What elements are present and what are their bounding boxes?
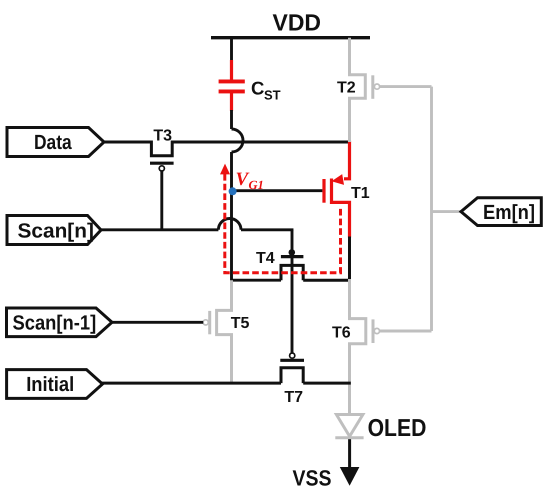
input label Initial bbox=[7, 370, 103, 399]
transistor T4 gate bar bbox=[281, 255, 304, 258]
svg-text:OLED: OLED bbox=[368, 415, 427, 442]
red dashed feedback path bbox=[225, 174, 341, 273]
transistor T2 gate bar (gray) bbox=[371, 75, 374, 99]
transistor T6 gate bar (gray) bbox=[372, 319, 375, 343]
svg-text:VSS: VSS bbox=[293, 466, 332, 491]
wire VDD rail to C_ST bbox=[230, 38, 233, 62]
wire VG1 to T1 gate bbox=[232, 189, 322, 192]
wire Scan[n] to hop bbox=[100, 228, 218, 231]
transistor T1 channel path (red) bbox=[332, 141, 350, 238]
svg-text:T4: T4 bbox=[256, 250, 275, 267]
svg-text:T2: T2 bbox=[337, 80, 356, 97]
transistor T7 gate bubble bbox=[290, 353, 295, 358]
input label Scan[n-1] bbox=[7, 308, 113, 337]
wire T6 gate to Em column (gray) bbox=[380, 330, 432, 333]
svg-text:ST: ST bbox=[264, 88, 281, 103]
transistor T6 gate bubble (gray) bbox=[374, 328, 379, 333]
transistor T5 channel path (gray) bbox=[217, 280, 232, 382]
current arrow into T1 (red) bbox=[332, 174, 345, 185]
wire T7 right arm to main column bbox=[303, 382, 351, 385]
wire hop (Scan[n] over VG1 column) bbox=[218, 219, 241, 230]
wire T3 gate to Scan[n] bbox=[160, 171, 163, 230]
input label Scan[n] bbox=[7, 216, 101, 245]
transistor T6 channel path (gray) bbox=[350, 279, 366, 415]
svg-text:T5: T5 bbox=[231, 315, 250, 332]
node VG1 (blue dot) bbox=[229, 187, 237, 195]
svg-text:Em[n]: Em[n] bbox=[483, 201, 535, 224]
transistor T2 channel path (gray) bbox=[350, 38, 366, 142]
wire Em column stub to Em[n] label (gray) bbox=[432, 210, 462, 213]
svg-text:T1: T1 bbox=[351, 185, 370, 202]
capacitor C_ST (red) bbox=[219, 60, 245, 111]
wire C_ST to hop bbox=[230, 110, 233, 129]
svg-text:VDD: VDD bbox=[273, 10, 322, 36]
svg-text:T3: T3 bbox=[153, 128, 172, 145]
input label Data bbox=[7, 128, 104, 157]
input label Em[n] bbox=[461, 198, 541, 226]
wire T1 drain to T4 right corner (black) bbox=[303, 237, 349, 281]
svg-text:Scan[n-1]: Scan[n-1] bbox=[13, 312, 97, 335]
wire hop to node VG1 and down to T4 left arm bbox=[232, 152, 282, 280]
wire Initial to T7 bbox=[101, 382, 282, 385]
transistor T4 channel (black, bump up) bbox=[281, 265, 303, 280]
svg-text:Data: Data bbox=[34, 131, 72, 154]
transistor T2 gate bubble (gray) bbox=[374, 84, 379, 89]
transistor T3 gate bar bbox=[150, 162, 174, 165]
diode OLED (gray) bbox=[335, 415, 363, 438]
label VG1 (red) bbox=[236, 169, 264, 192]
transistor T7 channel (black, bump up) bbox=[281, 368, 303, 383]
svg-text:Scan[n]: Scan[n] bbox=[18, 219, 94, 242]
transistor T5 gate bar (gray) bbox=[208, 311, 211, 334]
wire T4 gate column down to T7 gate bbox=[291, 230, 294, 353]
svg-text:T6: T6 bbox=[332, 325, 351, 342]
red dashed path arrowhead (up) bbox=[220, 164, 230, 175]
transistor T3 gate bubble bbox=[159, 166, 164, 171]
wire Em[n] column (gray) bbox=[430, 87, 433, 331]
svg-text:Initial: Initial bbox=[26, 373, 74, 396]
wire hop to T4 gate corner bbox=[241, 230, 292, 231]
transistor T5 gate bubble (gray) bbox=[203, 320, 208, 325]
svg-text:T7: T7 bbox=[284, 389, 303, 406]
transistor T1 gate bar (red) bbox=[322, 179, 325, 203]
transistor T3 channel path (Data to main column) bbox=[103, 142, 350, 156]
label C_ST bbox=[251, 77, 281, 102]
svg-text:V: V bbox=[236, 169, 250, 190]
junction dot at T4 gate bbox=[289, 249, 296, 256]
wire Scan[n-1] to T5 gate bbox=[110, 321, 203, 324]
transistor T7 gate bar bbox=[280, 359, 304, 362]
wire T2 gate to Em column (gray) bbox=[380, 85, 432, 88]
VSS arrow bbox=[340, 467, 360, 486]
VDD power rail wire bbox=[211, 36, 370, 39]
wire OLED to VSS arrow bbox=[348, 439, 351, 470]
svg-text:C: C bbox=[251, 77, 264, 98]
wire hop (vertical over data wire) bbox=[232, 129, 244, 152]
